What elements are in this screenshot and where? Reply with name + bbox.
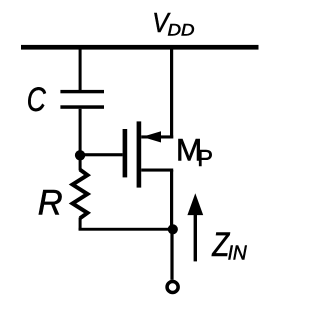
wire: VDD rail to source — [170, 47, 173, 138]
channel bar — [137, 121, 142, 187]
wire: drain down to input node — [170, 170, 173, 230]
svg-text:R: R — [38, 183, 63, 222]
svg-text:P: P — [197, 145, 213, 171]
capacitor C — [60, 90, 104, 109]
label MP — [176, 132, 213, 171]
resistor R — [73, 155, 88, 230]
svg-text:C: C — [27, 82, 47, 119]
label VDD — [152, 6, 195, 39]
wire: resistor bottom to bottom wire — [79, 218, 82, 231]
svg-text:IN: IN — [228, 242, 248, 265]
wire: capacitor bottom to gate node — [79, 109, 82, 156]
wire: input node to terminal — [170, 229, 173, 279]
label ZIN — [211, 225, 247, 264]
node: input node junction dot — [168, 224, 178, 234]
drain lead — [141, 169, 173, 172]
svg-text:DD: DD — [168, 20, 195, 39]
arrow: ZIN direction — [187, 193, 203, 261]
source arrowhead — [142, 131, 161, 142]
wire: node to resistor top — [79, 155, 82, 171]
node: gate node junction dot — [75, 150, 85, 160]
transistor MP (PMOS) — [123, 121, 174, 187]
VDD supply rail — [21, 45, 259, 50]
terminal: open circle input port — [167, 281, 178, 292]
wire: gate lead to transistor — [80, 153, 123, 156]
wire: VDD rail to capacitor top — [79, 47, 82, 91]
wire: bottom horizontal — [79, 228, 175, 231]
gate bar — [123, 129, 128, 177]
zigzag — [73, 170, 88, 219]
source lead — [141, 135, 173, 138]
